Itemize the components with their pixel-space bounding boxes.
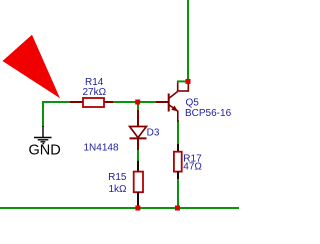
wire: D3 branch top	[137, 102, 139, 112]
wire: horizontal base net left segment	[43, 101, 71, 103]
diode D3	[84, 110, 160, 154]
wire: D3 to R15	[137, 149, 139, 161]
wire: Q5 emitter to R17	[177, 120, 179, 144]
junction: bottom net / R15	[135, 206, 140, 211]
svg-text:R15: R15	[108, 172, 127, 183]
svg-text:1kΩ: 1kΩ	[108, 184, 127, 195]
wire: top vertical net to Q5 collector	[187, 0, 189, 81]
svg-text:27kΩ: 27kΩ	[83, 87, 107, 98]
svg-text:GND: GND	[29, 142, 61, 158]
wire: horizontal base net right segment	[112, 101, 157, 103]
resistor R15	[108, 161, 143, 206]
wire: R17 to bottom net	[177, 178, 179, 208]
junction: bottom net / R17	[175, 206, 180, 211]
svg-text:47Ω: 47Ω	[183, 162, 202, 173]
ground	[34, 126, 52, 144]
svg-text:D3: D3	[147, 128, 160, 139]
red marker arrow	[3, 35, 61, 98]
resistor R17	[174, 144, 203, 179]
junction: collector net	[186, 79, 191, 84]
svg-text:1N4148: 1N4148	[84, 143, 119, 154]
wire: R15 to bottom net	[137, 204, 139, 208]
junction: base net / D3 branch	[135, 100, 140, 105]
resistor R14	[70, 77, 113, 107]
wire: bottom horizontal net	[0, 207, 239, 209]
svg-text:BCP56-16: BCP56-16	[185, 108, 232, 119]
wire: left vertical to ground	[42, 101, 44, 127]
transistor Q5	[156, 81, 232, 122]
